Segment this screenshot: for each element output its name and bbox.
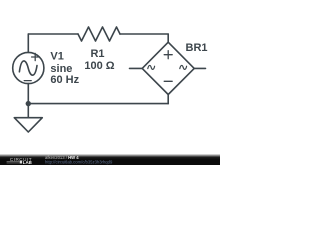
watermark logo LAB lines (7, 162, 20, 163)
svg-text:LAB: LAB (23, 160, 32, 165)
svg-text:R1: R1 (90, 48, 104, 60)
BR1 left ac tilde (148, 65, 155, 69)
BR1 left terminal stub (130, 67, 143, 69)
BR1 right ac tilde (180, 65, 187, 69)
wire bridge bottom vertex down (167, 95, 169, 104)
resistor R1 zigzag (78, 27, 120, 41)
BR1 minus sign (164, 80, 172, 82)
wire top rail right segment (120, 33, 168, 35)
V1 plus sign (32, 53, 39, 60)
BR1 plus sign (164, 51, 172, 59)
wire down to bridge top vertex (167, 34, 169, 42)
wire V1 bottom down to ground (27, 84, 29, 118)
svg-text:BR1: BR1 (186, 42, 208, 54)
V1 sine symbol (19, 61, 37, 75)
svg-text:60 Hz: 60 Hz (50, 74, 79, 86)
bridge rectifier BR1 diamond (142, 42, 194, 94)
wire bottom rail (28, 103, 168, 105)
voltage source V1 body (13, 52, 44, 83)
svg-text:100 Ω: 100 Ω (84, 60, 114, 72)
ground symbol (14, 118, 42, 132)
wire top rail left segment (28, 33, 78, 35)
V1 minus sign (24, 80, 31, 82)
wire V1 top to top rail (27, 34, 29, 52)
junction node (26, 101, 31, 106)
BR1 right terminal stub (194, 67, 205, 69)
watermark logo icon (20, 161, 22, 164)
svg-text:V1: V1 (50, 51, 63, 63)
svg-text:http://circuitlab.com/c/b35z3h: http://circuitlab.com/c/b35z3h3rhqd9 (45, 160, 113, 165)
